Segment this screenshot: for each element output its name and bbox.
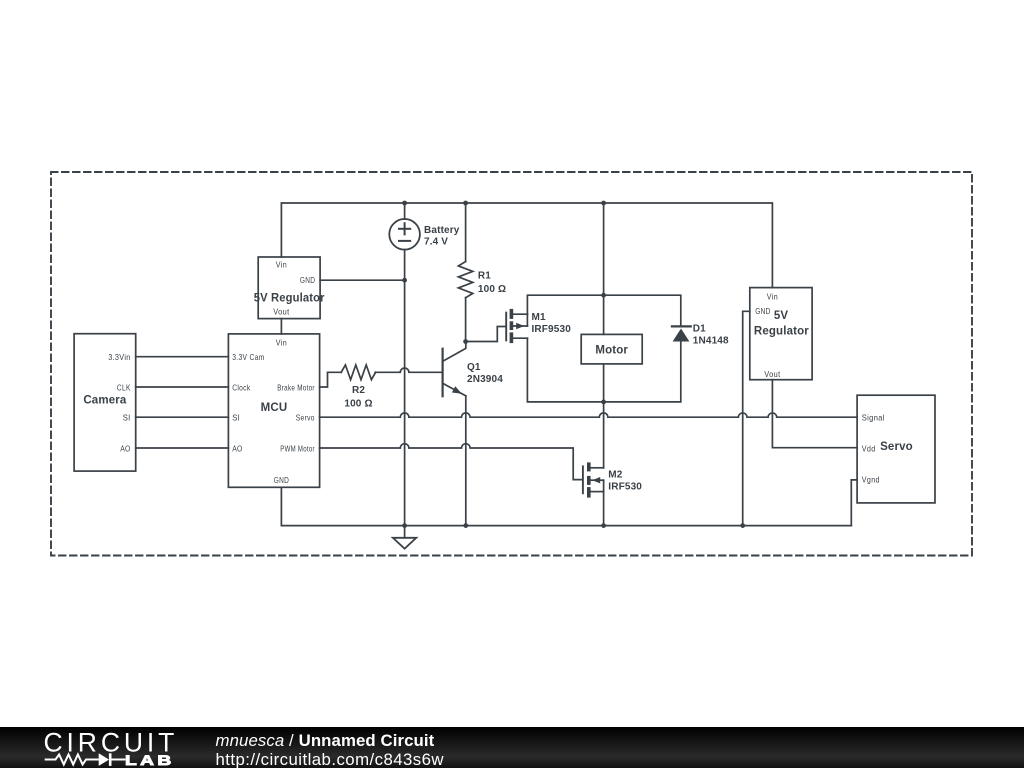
battery V1 7.4 V — [389, 203, 420, 250]
wire PWM row (MCU PWM Motor to M2 gate, with hops) — [320, 444, 582, 480]
svg-text:5V Regulator: 5V Regulator — [254, 292, 325, 304]
svg-text:Vdd: Vdd — [862, 444, 876, 454]
svg-text:Camera: Camera — [83, 395, 127, 407]
wire right regulator Vout to servo Vdd — [772, 380, 857, 448]
servo box — [857, 395, 935, 503]
label Camera pins — [108, 352, 131, 453]
wire M2 drain up to motor loop — [603, 402, 605, 468]
MCU U2 box — [228, 334, 319, 487]
label R2 100 ohm — [344, 385, 372, 409]
resistor R2 — [341, 365, 375, 380]
transistor M2 IRF530 (NMOS) — [583, 462, 604, 497]
label Q1 2N3904 — [467, 362, 503, 385]
svg-text:SI: SI — [232, 413, 240, 423]
svg-text:Q1: Q1 — [467, 362, 481, 373]
label MCU pins — [232, 338, 315, 485]
wire camera AO to MCU AO — [136, 447, 229, 449]
svg-text:Vin: Vin — [276, 260, 287, 270]
transistor M1 IRF9530 (PMOS) — [506, 309, 527, 343]
svg-text:7.4 V: 7.4 V — [424, 237, 448, 248]
label 5V Regulator (right) pins — [755, 291, 780, 379]
svg-text:IRF530: IRF530 — [608, 481, 642, 492]
node R1 top junction — [463, 201, 468, 206]
wire left regulator GND to battery line — [320, 279, 405, 281]
wire Q1 emitter down to ground rail — [465, 396, 467, 526]
wire servo signal row (MCU Servo to Servo Signal, with hops) — [320, 413, 858, 417]
footer bar — [0, 727, 1024, 768]
svg-text:Vgnd: Vgnd — [862, 475, 880, 485]
label Servo pins — [862, 413, 885, 485]
label D1 1N4148 — [693, 323, 729, 346]
label M1 IRF9530 — [532, 312, 572, 335]
label M2 IRF530 — [608, 470, 642, 493]
wire motor bottom lead — [603, 364, 605, 402]
svg-text:GND: GND — [274, 475, 289, 485]
svg-text:Battery: Battery — [424, 225, 460, 236]
node ground M2 junction — [601, 523, 606, 528]
svg-text:LAB: LAB — [125, 752, 175, 768]
svg-text:D1: D1 — [693, 323, 706, 334]
svg-text:100 Ω: 100 Ω — [344, 398, 372, 409]
node ground Q1 junction — [463, 523, 468, 528]
label R1 100 ohm — [478, 271, 506, 295]
svg-text:Motor: Motor — [595, 344, 628, 356]
5V regulator U1 box (left) — [258, 257, 320, 319]
wire ground rail — [281, 487, 851, 525]
svg-text:M2: M2 — [608, 470, 622, 481]
transistor Q1 2N3904 — [443, 342, 466, 397]
node R1 / Q1 collector / M1 gate junction — [463, 339, 468, 344]
wire camera CLK to MCU Clock — [136, 386, 229, 388]
wire junction to M1 gate — [466, 327, 505, 342]
svg-text:Brake Motor: Brake Motor — [277, 382, 315, 392]
svg-text:IRF9530: IRF9530 — [532, 324, 572, 335]
wire motor branch from top rail — [603, 203, 605, 295]
svg-text:Clock: Clock — [232, 382, 251, 392]
svg-text:PWM Motor: PWM Motor — [280, 444, 315, 454]
svg-text:Vin: Vin — [276, 338, 287, 348]
wire motor top lead — [603, 295, 605, 334]
wire motor loop bottom — [527, 338, 680, 402]
svg-text:1N4148: 1N4148 — [693, 336, 729, 347]
svg-text:AO: AO — [232, 444, 243, 454]
CircuitLab logo — [40, 725, 230, 768]
label Battery 7.4 V — [424, 225, 460, 248]
wire M2 source down to ground rail — [603, 492, 605, 526]
svg-text:CLK: CLK — [117, 382, 131, 392]
svg-text:Vout: Vout — [764, 369, 780, 379]
footer title text — [216, 732, 445, 768]
node motor branch top junction — [601, 201, 606, 206]
svg-text:Regulator: Regulator — [754, 326, 809, 338]
svg-text:GND: GND — [755, 306, 770, 316]
svg-text:Vout: Vout — [273, 306, 289, 316]
svg-text:R1: R1 — [478, 271, 491, 282]
wire top power rail — [281, 203, 772, 288]
wire MCU brake motor to R2 — [320, 372, 342, 387]
svg-text:SI: SI — [123, 413, 131, 423]
camera module box — [74, 334, 136, 471]
wire top rail to regulator (right) Vin handled in rail; 5V regulator U3 box (right) — [750, 288, 812, 380]
svg-text:M1: M1 — [532, 312, 546, 323]
wire right regulator GND down to ground rail — [743, 311, 750, 525]
node motor bottom junction — [601, 400, 606, 405]
svg-text:3.3V Cam: 3.3V Cam — [232, 352, 265, 362]
node ground regulator junction — [740, 523, 745, 528]
node motor top junction — [601, 293, 606, 298]
svg-text:Servo: Servo — [880, 441, 913, 453]
wire servo Vgnd to ground rail — [851, 480, 857, 526]
svg-text:2N3904: 2N3904 — [467, 374, 503, 385]
svg-text:AO: AO — [120, 444, 131, 454]
motor M box — [581, 334, 642, 364]
svg-text:R2: R2 — [352, 385, 365, 396]
ground symbol — [393, 526, 416, 549]
wire battery negative to ground rail — [404, 250, 406, 526]
svg-text:Vin: Vin — [767, 291, 778, 301]
svg-text:Signal: Signal — [862, 413, 885, 423]
diode D1 1N4148 — [672, 326, 691, 341]
label 5V Regulator (left) pins — [273, 260, 315, 317]
node battery top junction — [402, 201, 407, 206]
svg-text:MCU: MCU — [261, 402, 288, 414]
svg-text:5V: 5V — [774, 310, 789, 322]
label 5V Regulator (right) name — [754, 310, 809, 337]
node left regulator GND junction — [402, 278, 407, 283]
svg-text:100 Ω: 100 Ω — [478, 284, 506, 295]
svg-text:3.3Vin: 3.3Vin — [108, 352, 131, 362]
schematic boundary dashed box — [51, 172, 972, 556]
resistor R1 — [458, 203, 472, 342]
svg-text:GND: GND — [300, 275, 315, 285]
wire R2 to Q1 base (hop over battery line) — [375, 368, 442, 372]
wire motor loop top — [527, 295, 680, 326]
wire left regulator Vout to MCU Vin — [280, 319, 282, 334]
wire camera SI to MCU SI — [136, 416, 229, 418]
svg-text:Servo: Servo — [296, 413, 315, 423]
wire camera 3.3Vin to MCU — [136, 356, 229, 358]
node ground battery junction — [402, 523, 407, 528]
